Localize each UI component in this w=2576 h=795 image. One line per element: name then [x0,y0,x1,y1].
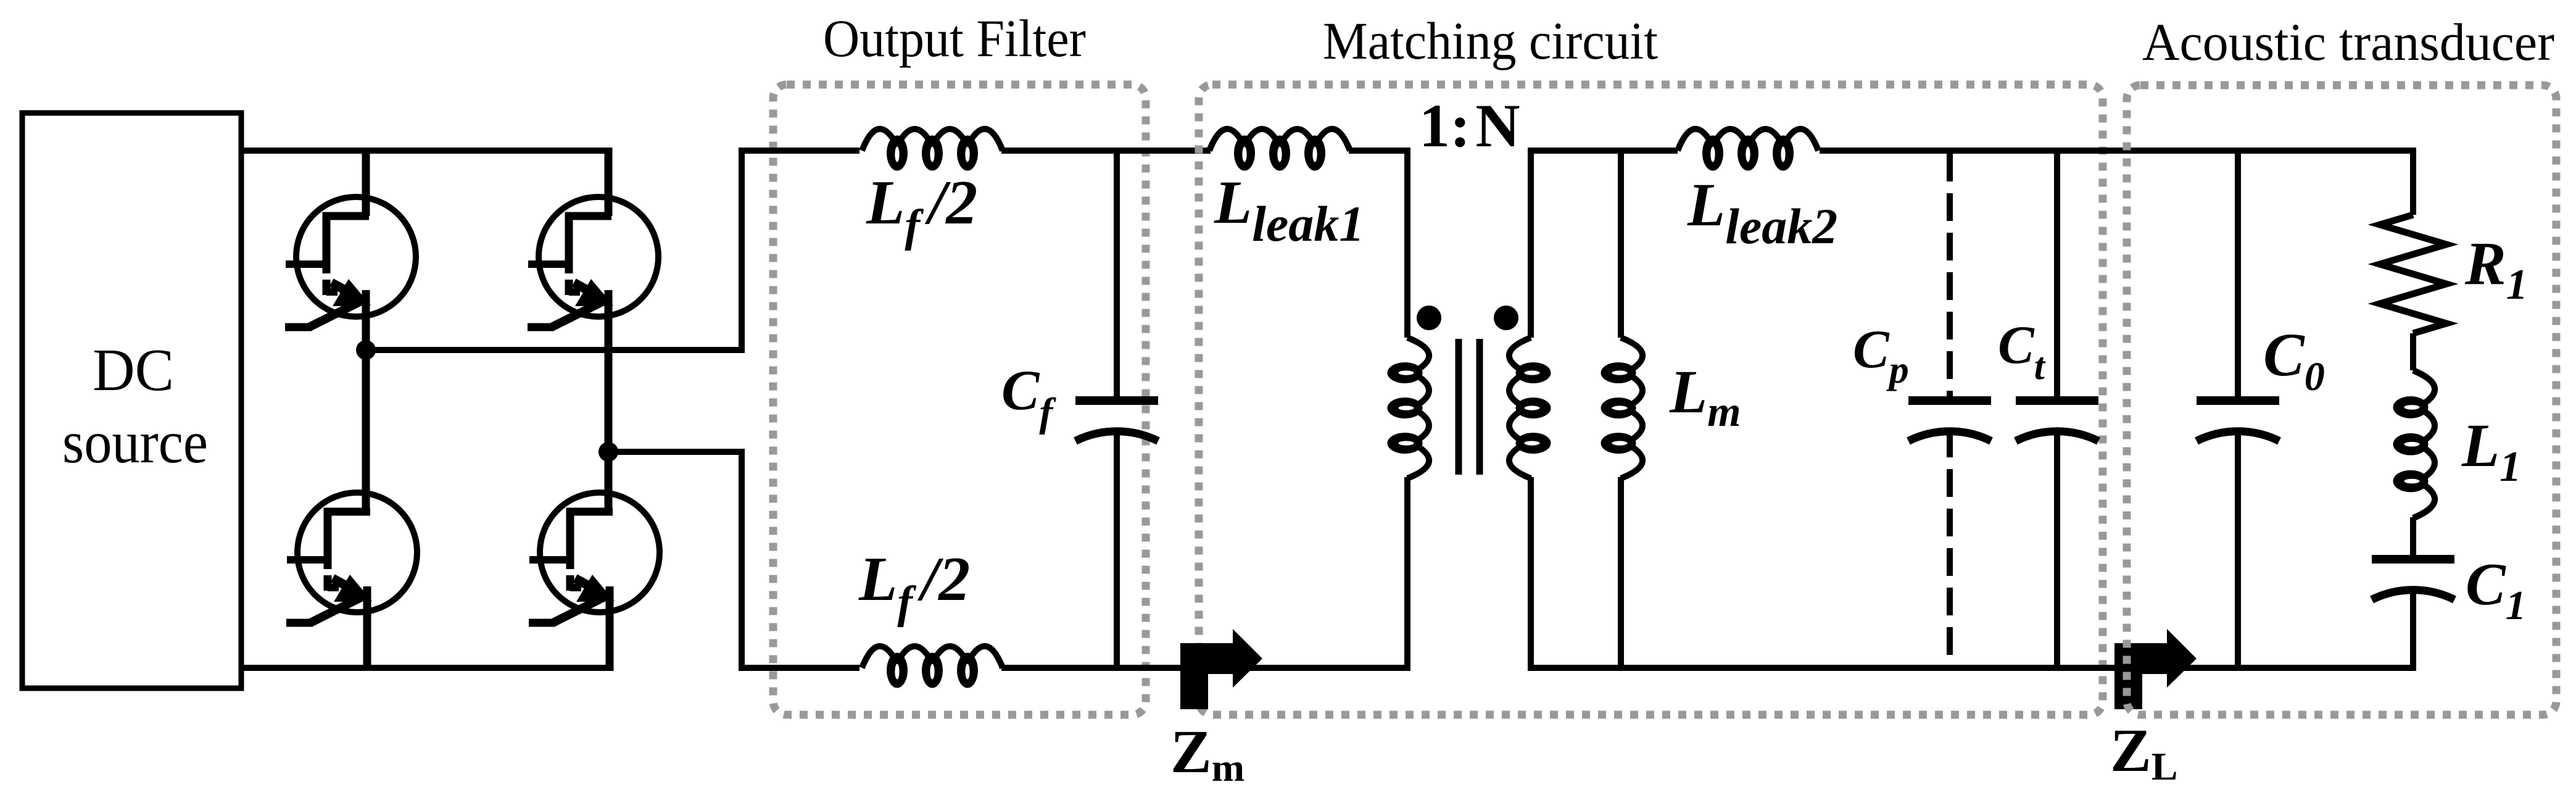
inductor Lf/2 bottom [862,646,1003,688]
box: matching circuit dotted border [1199,85,2103,715]
wire: Lm vertical top [1618,151,1624,338]
wire: transformer primary vertical bottom [1404,477,1410,671]
wire: L1 to C1 [2410,517,2416,555]
transformer primary winding [1388,338,1430,478]
wire: bottom rail to inductor [739,665,859,671]
node: secondary phase dot [1494,306,1518,330]
transistor Q2 [528,197,658,327]
svg-text:DC: DC [93,337,174,403]
box: output filter dotted border [773,85,1146,715]
wire: top rail Lleak2 to right [1820,148,2413,154]
wire: right leg Q2 emitter to midpoint [605,290,613,452]
wire: top rail to inductor [739,148,859,154]
transformer secondary winding [1509,338,1551,478]
svg-text:Output Filter: Output Filter [823,9,1086,68]
wire: transformer secondary vertical bottom [1528,477,1534,671]
impedance arrow Zm [1180,629,1262,709]
wire: bottom rail inductor to transformer [1001,665,1410,671]
wire: top rail from DC box to right leg [241,148,608,154]
wire: left leg midpoint to Q3 [362,350,370,512]
wire: top rail Lleak1 to primary [1349,148,1410,154]
DC source box [22,113,241,688]
transistor Q1 [285,197,416,327]
wire: left leg collector Q1 [362,148,370,216]
wire: secondary top rail [1531,148,1678,154]
wire: transformer secondary vertical top [1528,148,1534,338]
capacitor Cf [1114,151,1120,396]
wire: left midpoint out to jog [366,347,745,353]
svg-text:Matching circuit: Matching circuit [1323,11,1658,70]
wire: right leg top corner down to Q2 [605,148,613,216]
wire: Lm vertical bottom [1618,477,1624,668]
wire: right leg midpoint to Q4 [605,452,613,512]
capacitor Ct [2054,151,2060,396]
svg-text:1:N: 1:N [1419,91,1520,160]
wire: bottom rail from DC box to right leg [241,665,611,671]
transformer core [1459,339,1480,475]
node: left midpoint junction [356,340,376,360]
wire: R1 to L1 [2410,333,2416,370]
inductor Lleak1 [1209,129,1350,171]
wire: right branch top [2410,148,2416,215]
node: primary phase dot [1417,306,1441,330]
transistor Q4 [529,493,660,623]
wire: secondary bottom rail [1531,665,2413,671]
wire: left leg Q1 emitter to midpoint [362,290,370,350]
svg-text:source: source [62,409,208,475]
wire: jog down to bottom rail [739,452,745,671]
capacitor C1 [2372,555,2454,564]
impedance arrow ZL [2114,629,2197,709]
resistor R1 [2380,215,2446,333]
inductor L1 [2393,370,2435,518]
inductor Lf/2 top [862,129,1003,171]
wire: jog up to top rail [739,148,745,350]
node: right midpoint junction [598,442,618,462]
wire: top rail inductor to Lleak1 [1001,148,1211,154]
capacitor Cp (dashed line) [1947,154,1953,396]
inductor Lleak2 [1678,129,1818,171]
wire: right midpoint out to jog [608,449,745,455]
transistor Q3 [286,493,417,623]
capacitor C0 [2235,151,2241,396]
wire: transformer primary vertical top [1404,148,1410,338]
wire: left leg Q3 emitter to bottom rail [363,586,371,668]
inductor Lm winding [1601,338,1643,478]
wire: right leg Q4 emitter to bottom rail [606,586,614,671]
svg-text:Acoustic transducer: Acoustic transducer [2142,12,2554,72]
box: acoustic transducer dotted border [2127,85,2556,715]
wire: C1 to bottom rail [2410,588,2416,671]
